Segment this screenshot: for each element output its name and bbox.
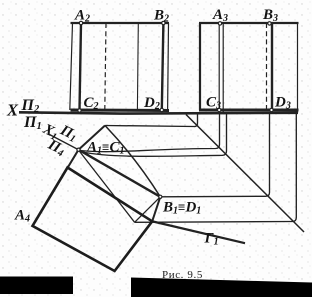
axis X1 <box>50 135 80 151</box>
45 degree miter line <box>186 115 304 233</box>
plate edge A2C2 <box>80 23 82 110</box>
connection pair 2 <box>82 113 227 156</box>
projection ray A1 -> A4 <box>33 150 79 226</box>
censor bars <box>0 277 73 295</box>
apex to B1 <box>105 126 160 197</box>
axis X <box>19 112 298 113</box>
point dots <box>77 21 273 198</box>
plate edge B2D2 <box>162 23 164 110</box>
plate edge B3D3 <box>271 23 273 110</box>
wedge line to B1 <box>135 197 161 223</box>
inner edge <box>136 23 139 110</box>
hidden edge (dashed) <box>266 23 268 110</box>
trace G1 (through A1 B1) <box>79 150 161 197</box>
trace G1 line <box>153 222 245 244</box>
wedge line a <box>79 150 135 222</box>
projection ray B1 -> D4 <box>152 197 160 222</box>
connection lower <box>135 113 297 222</box>
connection A1 -> C3 <box>80 113 220 152</box>
connection B1 -> D3 <box>161 113 270 197</box>
true-shape plate A4 C4 D4 B4 (thick) <box>33 168 153 272</box>
svg-text:X: X <box>6 101 19 120</box>
plate edge A3C3 (double line) <box>218 23 220 113</box>
connection apex -> P3 <box>105 113 198 127</box>
svg-text:B1≡D1: B1≡D1 <box>162 200 201 217</box>
hidden edge (dashed) <box>105 23 106 110</box>
front view box (prism, plane P2) <box>70 23 169 111</box>
profile view box (plane P3) <box>199 23 299 113</box>
svg-text:A1≡C1: A1≡C1 <box>86 140 124 157</box>
apex to A1 <box>79 126 106 150</box>
